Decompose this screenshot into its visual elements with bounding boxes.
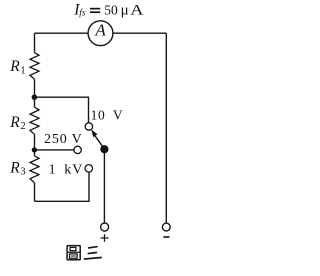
switch contact 1kV bbox=[85, 165, 93, 173]
ammeter U1 circle bbox=[88, 21, 113, 46]
node B junction dot bbox=[32, 147, 37, 152]
wire below R3 bbox=[34, 183, 36, 201]
svg-text:2: 2 bbox=[20, 121, 25, 132]
wire tap node B to 250V contact bbox=[34, 149, 73, 151]
wire right vertical bbox=[165, 33, 167, 223]
switch arm arrowhead bbox=[91, 129, 97, 137]
svg-text:3: 3 bbox=[20, 167, 25, 178]
wire top-left horizontal bbox=[35, 32, 89, 34]
wire bottom L to 1kV contact bbox=[35, 172, 90, 201]
svg-text:1 kV: 1 kV bbox=[49, 163, 84, 178]
plus sign bbox=[101, 234, 109, 241]
minus sign bbox=[163, 236, 169, 238]
svg-text:10 V: 10 V bbox=[91, 107, 124, 122]
svg-text:250 V: 250 V bbox=[44, 132, 83, 147]
svg-text:1: 1 bbox=[20, 65, 25, 76]
label = equals sign bbox=[90, 8, 100, 10]
wire left vertical upper bbox=[34, 33, 36, 53]
svg-text:R: R bbox=[9, 159, 20, 176]
resistor R1 bbox=[30, 53, 39, 79]
node A junction dot bbox=[32, 94, 38, 100]
svg-text:50: 50 bbox=[104, 3, 118, 18]
switch contact 10V bbox=[85, 123, 92, 130]
wire tap node A to 10V contact bbox=[34, 97, 88, 123]
svg-text:R: R bbox=[9, 114, 20, 131]
svg-text:A: A bbox=[130, 3, 143, 19]
switch contact 250V bbox=[74, 146, 81, 153]
svg-text:fs: fs bbox=[79, 8, 86, 19]
caption character tu (figure) bbox=[67, 246, 80, 260]
svg-text:μ: μ bbox=[121, 3, 129, 19]
terminal - circle bbox=[162, 223, 170, 231]
switch pole dot bbox=[100, 145, 108, 153]
svg-text:R: R bbox=[9, 58, 20, 75]
terminal + circle bbox=[101, 223, 109, 231]
resistor R3 bbox=[30, 156, 39, 183]
wire switch pole to + terminal bbox=[103, 149, 105, 223]
switch arm wire bbox=[95, 136, 103, 147]
wire top-right horizontal bbox=[113, 32, 166, 34]
resistor R2 bbox=[30, 107, 39, 134]
caption character san (three) bbox=[85, 247, 102, 259]
svg-text:A: A bbox=[94, 21, 106, 40]
wire between R2 and R3 bbox=[34, 134, 36, 156]
wire between R1 and R2 bbox=[34, 79, 36, 107]
